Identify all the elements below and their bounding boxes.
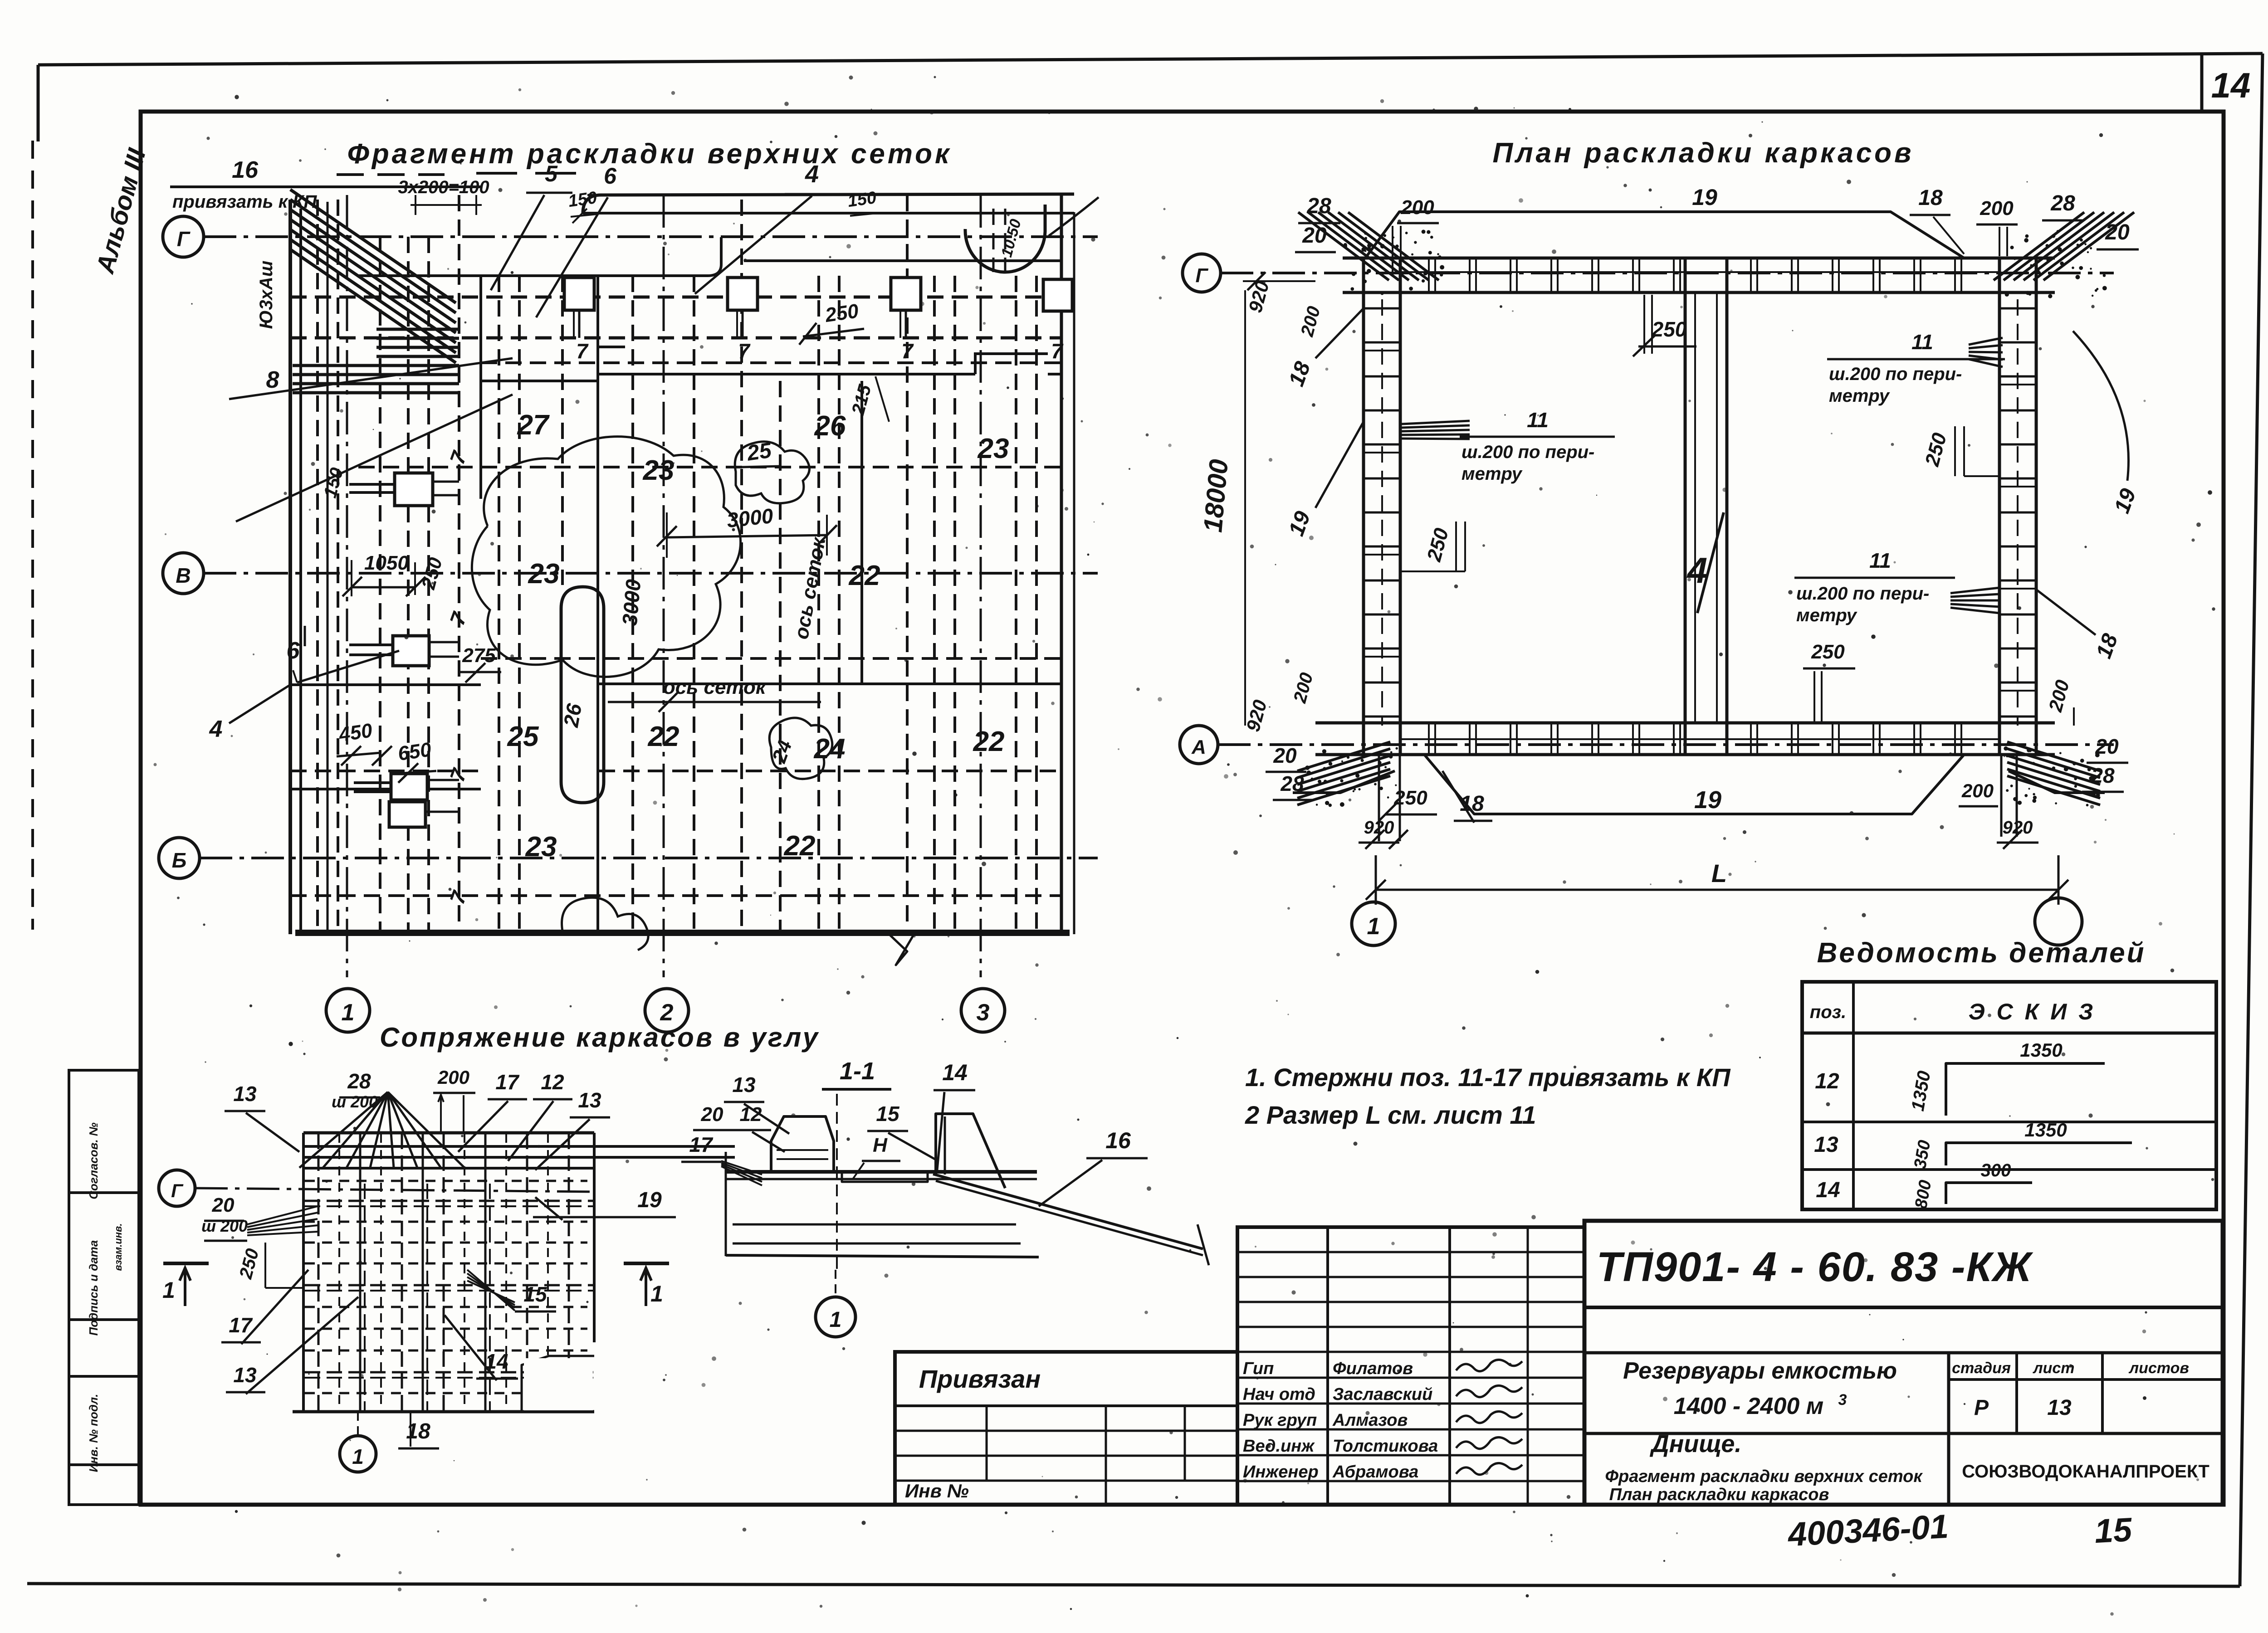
axis line Г plan: [1221, 272, 2114, 274]
svg-text:15: 15: [876, 1102, 900, 1126]
parts table header: [1810, 999, 2096, 1024]
plan bottom dims 920 pair: [1359, 818, 2038, 849]
rotated note Ю3хАш: [256, 261, 276, 329]
svg-text:650: 650: [396, 738, 433, 765]
designation ТП901-4-60.83-КЖ: [1597, 1244, 2034, 1290]
collar pair A on axis B: [349, 473, 459, 506]
svg-text:Подпись и дата: Подпись и дата: [87, 1240, 100, 1336]
plan corner hatch bottom-left: [1293, 742, 1398, 807]
corner detail label 19 right: [533, 1188, 676, 1220]
corner detail mesh grid: [293, 1133, 735, 1412]
svg-text:16: 16: [1105, 1128, 1131, 1153]
parts table row 14: [1816, 1160, 2032, 1210]
svg-text:Днище.: Днище.: [1650, 1430, 1742, 1458]
svg-text:ш.200 по пери-: ш.200 по пери-: [1796, 584, 1929, 604]
svg-text:26: 26: [559, 702, 586, 729]
svg-text:метру: метру: [1829, 386, 1890, 406]
svg-text:13: 13: [578, 1088, 601, 1112]
svg-text:ш 200: ш 200: [201, 1217, 248, 1235]
svg-text:Привязан: Привязан: [919, 1365, 1041, 1393]
svg-text:22: 22: [648, 721, 679, 752]
privyazan header text: [919, 1365, 1041, 1393]
svg-text:Вед.инж: Вед.инж: [1243, 1437, 1315, 1456]
svg-text:Н: Н: [873, 1134, 888, 1156]
corner detail dim 250 rotated: [235, 1243, 303, 1288]
revision cloud big: [472, 437, 740, 677]
corner detail label 13 lower: [226, 1297, 358, 1394]
svg-text:ТП901- 4 - 60. 83 -КЖ: ТП901- 4 - 60. 83 -КЖ: [1597, 1244, 2034, 1290]
fragment solid horizontals: [290, 374, 1070, 931]
svg-text:17: 17: [229, 1313, 253, 1337]
corner detail hatch fan: [299, 1092, 464, 1168]
svg-text:23: 23: [528, 558, 560, 590]
handwritten sheet 15: [2093, 1511, 2133, 1550]
svg-text:20: 20: [1302, 224, 1327, 248]
svg-text:листов: листов: [2128, 1360, 2189, 1377]
axis circle Г corner detail: [159, 1170, 195, 1206]
plan dim 250 top middle: [1633, 295, 1696, 356]
plan dim 18000 rotated: [1198, 290, 1245, 726]
svg-text:14: 14: [1816, 1178, 1840, 1202]
dimension 3000 horizontal: [657, 504, 837, 558]
svg-text:План раскладки каркасов: План раскладки каркасов: [1492, 137, 1914, 169]
svg-text:28: 28: [1280, 772, 1304, 795]
curved cutout bulb with hatch: [965, 197, 1099, 272]
svg-text:16: 16: [232, 157, 259, 183]
plan left ladder frame: [1364, 258, 1400, 755]
axis circle Б fragment: [159, 838, 200, 878]
svg-text:17: 17: [495, 1070, 520, 1094]
svg-text:L: L: [1711, 859, 1727, 887]
svg-text:300: 300: [1981, 1160, 2011, 1180]
plan bottom-right corner labels 20 28 200: [1959, 678, 2128, 837]
plan bottom label 18: [1442, 771, 1492, 823]
svg-text:Г: Г: [171, 1180, 184, 1201]
svg-text:25: 25: [745, 439, 774, 466]
svg-text:План раскладки каркасов: План раскладки каркасов: [1609, 1485, 1829, 1504]
dimension 215 rotated: [848, 376, 889, 422]
plan band tick marks: [1429, 258, 1961, 755]
svg-text:Г: Г: [177, 227, 191, 251]
svg-text:24: 24: [814, 733, 846, 765]
privyazan table: [895, 1352, 1237, 1505]
svg-text:20: 20: [2095, 735, 2119, 758]
svg-text:Абрамова: Абрамова: [1332, 1462, 1418, 1482]
svg-text:Р: Р: [1974, 1396, 1989, 1420]
svg-text:2 Размер L см. лист 11: 2 Размер L см. лист 11: [1245, 1101, 1536, 1129]
cell label 25 row: [507, 721, 539, 752]
cell label 23 a: [643, 455, 675, 486]
svg-text:200: 200: [1980, 197, 2014, 219]
svg-text:8: 8: [266, 367, 279, 393]
title: Фрагмент раскладки верхних сеток: [337, 138, 952, 175]
plan corner hatch top-right: [1994, 212, 2134, 298]
svg-text:5: 5: [545, 161, 558, 186]
dimension 250 fragment: [799, 300, 864, 345]
svg-text:1: 1: [342, 999, 355, 1026]
fragment dashed horizontals: [290, 297, 1061, 896]
svg-text:13: 13: [1814, 1133, 1838, 1157]
svg-text:20: 20: [2105, 220, 2130, 244]
note ось сеток rotated: [790, 535, 830, 641]
svg-text:1: 1: [162, 1277, 175, 1303]
svg-text:ось сеток: ось сеток: [663, 676, 767, 698]
capsule 26: [559, 587, 604, 803]
dimension 150 rotated left: [320, 466, 347, 500]
svg-text:Инв №: Инв №: [905, 1480, 969, 1501]
project name Резервуары емкостью: [1623, 1358, 1897, 1419]
svg-text:метру: метру: [1461, 464, 1523, 484]
svg-text:7: 7: [901, 339, 914, 363]
corner detail label 14: [445, 1315, 518, 1380]
corner detail label 17 lower: [221, 1270, 308, 1344]
svg-text:17: 17: [689, 1133, 714, 1156]
cell label 27: [517, 409, 550, 441]
axis line Г fragment: [204, 235, 1098, 238]
svg-text:200: 200: [437, 1067, 469, 1088]
svg-text:Инв. № подл.: Инв. № подл.: [87, 1394, 100, 1472]
dimension 150 top: [567, 188, 878, 223]
fragment band line 2: [358, 237, 1061, 276]
collar pair B lower: [349, 636, 459, 666]
svg-text:6: 6: [287, 638, 300, 664]
dimension 650: [396, 738, 436, 783]
labels 7 under collar row: [576, 339, 1064, 363]
svg-text:2: 2: [660, 999, 674, 1026]
svg-text:Гип: Гип: [1243, 1359, 1274, 1378]
mesh splice collar 1: [564, 278, 594, 338]
plan bottom-left corner labels 20 28: [1266, 744, 1313, 800]
svg-text:20: 20: [701, 1103, 723, 1126]
svg-text:28: 28: [1306, 194, 1331, 218]
section label 14: [934, 1060, 975, 1170]
leader 5: [491, 161, 572, 290]
svg-text:В: В: [176, 564, 191, 587]
callout 16 привязать к КП: [170, 157, 481, 212]
svg-text:Ведомость деталей: Ведомость деталей: [1817, 937, 2146, 969]
svg-text:1-1: 1-1: [840, 1058, 875, 1085]
svg-text:Сопряжение каркасов в углу: Сопряжение каркасов в углу: [380, 1022, 820, 1053]
svg-text:1400 - 2400 м: 1400 - 2400 м: [1674, 1393, 1823, 1419]
inventory number cell: [905, 1480, 969, 1501]
svg-text:18: 18: [1918, 186, 1943, 210]
label 8 with leader: [229, 358, 513, 522]
svg-text:Ю3хАш: Ю3хАш: [256, 261, 276, 329]
svg-text:250: 250: [1652, 317, 1687, 341]
axis line В fragment: [204, 572, 1098, 575]
cell label 26: [814, 410, 846, 442]
plan top chord 19: [1365, 185, 1964, 258]
plan center mark 4: [1686, 512, 1724, 613]
title: Сопряжение каркасов в углу: [380, 1022, 820, 1053]
cell label 24: [814, 733, 846, 765]
handwritten doc number 400346-01: [1786, 1507, 1950, 1554]
plan left dims 920 200: [1243, 272, 1324, 339]
section axis dashed: [836, 1094, 838, 1270]
section title 1-1: [822, 1058, 891, 1089]
svg-text:20: 20: [1273, 744, 1297, 767]
svg-text:Резервуары емкостью: Резервуары емкостью: [1623, 1358, 1897, 1384]
plan middle split verticals: [1685, 258, 1727, 755]
cell label 23 b: [978, 433, 1009, 464]
fragment dashed verticals: [318, 195, 1036, 931]
svg-text:12: 12: [541, 1070, 564, 1094]
svg-text:13: 13: [233, 1363, 257, 1387]
title: Ведомость деталей: [1817, 937, 2146, 969]
svg-text:Заславский: Заславский: [1333, 1385, 1432, 1404]
svg-text:13: 13: [2047, 1396, 2072, 1420]
section grid bubble 1: [816, 1270, 855, 1337]
svg-text:3: 3: [1838, 1391, 1847, 1409]
svg-text:23: 23: [525, 831, 557, 863]
corner detail grid bubble 1: [340, 1412, 376, 1472]
label 6 with leader: [287, 626, 399, 682]
axis circle В fragment: [163, 553, 204, 594]
svg-text:лист: лист: [2032, 1360, 2074, 1377]
svg-text:1: 1: [830, 1308, 842, 1332]
cell label 22 c: [784, 830, 816, 862]
svg-text:ш.200 по пери-: ш.200 по пери-: [1829, 364, 1962, 384]
column axis 1 of fragment: [326, 195, 370, 1032]
dimension 3000 rotated: [618, 578, 645, 627]
section label 15: [867, 1102, 938, 1161]
svg-text:150: 150: [567, 188, 598, 211]
svg-text:взам.инв.: взам.инв.: [112, 1224, 124, 1271]
svg-text:1. Стержни поз. 11-17 привязат: 1. Стержни поз. 11-17 привязать к КП: [1245, 1063, 1731, 1092]
plan corner hatch bottom-right: [2004, 742, 2105, 806]
plan grid bubble right: [2035, 898, 2082, 945]
svg-text:3х200=100: 3х200=100: [398, 177, 489, 197]
section channel recess: [842, 1134, 928, 1182]
mesh splice collar 2: [728, 278, 758, 338]
plan bottom dim 250 left: [1379, 787, 1437, 821]
svg-text:Г: Г: [1195, 264, 1208, 287]
svg-text:25: 25: [507, 721, 539, 752]
svg-text:19: 19: [1694, 786, 1721, 814]
svg-text:Фрагмент раскладки верхних сет: Фрагмент раскладки верхних сеток: [1605, 1467, 1923, 1486]
svg-text:11: 11: [1869, 549, 1891, 572]
svg-text:Э С К И З: Э С К И З: [1969, 999, 2096, 1024]
svg-text:19: 19: [637, 1188, 662, 1212]
plan top band: [1343, 258, 2055, 292]
dimension 450: [337, 719, 392, 765]
svg-text:20: 20: [212, 1194, 235, 1216]
svg-text:стадия: стадия: [1952, 1360, 2011, 1377]
revision cloud bottom: [562, 897, 649, 950]
svg-text:7: 7: [576, 339, 589, 363]
svg-text:12: 12: [740, 1103, 762, 1126]
svg-text:4: 4: [209, 716, 223, 742]
svg-text:ш.200 по пери-: ш.200 по пери-: [1461, 442, 1594, 462]
title: План раскладки каркасов: [1492, 137, 1914, 169]
plan dim 250 mid bottom: [1803, 641, 1855, 723]
collar pair C stacked: [354, 774, 459, 827]
svg-text:19: 19: [1692, 185, 1717, 210]
plan right labels 19 18: [2036, 331, 2141, 662]
cell label 23 c: [528, 558, 560, 590]
plan labels top-right 18 200 28 20: [1910, 186, 2139, 256]
svg-text:1350: 1350: [2024, 1119, 2067, 1141]
label 4 left with leader: [209, 524, 290, 742]
axis circle Г plan: [1183, 254, 1221, 292]
note line 2: [1245, 1101, 1536, 1129]
axis circle А plan: [1180, 726, 1218, 764]
svg-text:15: 15: [2093, 1511, 2133, 1550]
svg-text:200: 200: [1400, 196, 1434, 219]
svg-text:7: 7: [738, 339, 751, 363]
svg-text:поз.: поз.: [1810, 1002, 1846, 1022]
svg-text:Согласов. №: Согласов. №: [87, 1122, 100, 1199]
svg-text:Б: Б: [172, 848, 187, 872]
parts table row 13: [1814, 1119, 2132, 1170]
corner detail section mark 1 left: [162, 1263, 209, 1306]
svg-text:11: 11: [1527, 408, 1549, 432]
svg-text:Рук груп: Рук груп: [1243, 1411, 1317, 1430]
section slope line 16: [933, 1128, 1209, 1265]
svg-text:11: 11: [1911, 330, 1933, 354]
horizontal rebar bundle upper: [376, 329, 459, 356]
svg-text:3000: 3000: [618, 578, 645, 627]
vertical label Альбом III: [90, 145, 151, 277]
stage list cells: [1952, 1360, 2189, 1420]
svg-text:14: 14: [942, 1060, 968, 1085]
corner detail labels top: [225, 1067, 610, 1170]
plan left labels 18 19: [1284, 308, 1364, 539]
plan right ladder frame: [1999, 258, 2036, 755]
organization СОЮЗВОДОКАНАЛПРОЕКТ: [1962, 1462, 2209, 1482]
plan labels top-left 28 20 200: [1295, 194, 1439, 272]
svg-text:1050: 1050: [364, 552, 409, 574]
svg-text:Филатов: Филатов: [1333, 1359, 1413, 1378]
svg-text:250: 250: [1811, 641, 1845, 663]
svg-text:275: 275: [462, 644, 496, 667]
plan grid bubble 1: [1352, 902, 1395, 946]
svg-text:150: 150: [846, 188, 878, 211]
corner detail section mark 1 right: [624, 1263, 669, 1306]
plan overall dimension L: [1366, 855, 2068, 905]
svg-text:метру: метру: [1796, 605, 1857, 625]
cell label 23 d: [525, 831, 557, 863]
corner detail labels 20 ш200 left: [201, 1194, 318, 1241]
signature table names: [1243, 1359, 1522, 1482]
axis line А plan: [1218, 743, 2114, 746]
axis line Г corner detail: [195, 1188, 596, 1192]
sheet content Днище: [1605, 1430, 1923, 1504]
svg-text:22: 22: [849, 560, 880, 591]
cell label 22 d mid: [849, 560, 880, 591]
column axis 2 of fragment: [645, 195, 689, 1032]
svg-text:250: 250: [823, 300, 860, 327]
svg-text:27: 27: [517, 409, 550, 441]
mesh splice collar 3: [891, 278, 921, 338]
svg-text:22: 22: [973, 726, 1005, 757]
plan bottom-left dims 920 200: [1242, 671, 1317, 734]
dimension 1050: [342, 552, 425, 596]
dimension 3x200=100 top: [398, 177, 489, 215]
svg-text:1350: 1350: [2020, 1039, 2062, 1061]
corner detail label 15: [467, 1270, 556, 1311]
left margin stamp boxes: [69, 1070, 139, 1505]
cell label 22 b: [973, 726, 1005, 757]
svg-text:13: 13: [233, 1082, 257, 1106]
title block main box: [1584, 1221, 2223, 1505]
plan dim 250 left rotated: [1400, 522, 1465, 571]
note ось сеток horizontal: [608, 676, 821, 712]
revision cloud 24 rotated: [768, 718, 832, 779]
corner detail label 18: [398, 1412, 439, 1448]
svg-text:14: 14: [2211, 65, 2251, 105]
inner frame border: [141, 112, 2224, 1505]
svg-text:23: 23: [643, 455, 675, 486]
svg-text:28: 28: [347, 1069, 371, 1093]
svg-text:Инженер: Инженер: [1243, 1462, 1319, 1482]
svg-text:4: 4: [805, 161, 819, 188]
signature table: [1237, 1227, 1584, 1505]
fragment top edge line: [583, 194, 1074, 213]
labels 7 rotated on left column: [445, 447, 471, 907]
diagonal rebar bundle top-left: [290, 190, 456, 363]
section label 13: [724, 1073, 789, 1134]
svg-text:450: 450: [337, 719, 374, 746]
svg-text:13: 13: [732, 1073, 756, 1097]
dimension 275: [458, 644, 501, 682]
section left mesh block: [771, 1116, 834, 1172]
svg-text:22: 22: [784, 830, 816, 862]
axis line Б fragment: [200, 857, 1098, 859]
step lines upper right of fragment: [598, 347, 1048, 374]
svg-text:1: 1: [1367, 913, 1380, 940]
svg-text:Фрагмент раскладки верхних: Фрагмент раскладки верхних сеток: [347, 138, 952, 170]
svg-text:А: А: [1191, 736, 1206, 758]
plan rebar callout 11 lower-right: [1794, 549, 1999, 625]
svg-text:28: 28: [2050, 191, 2075, 215]
cell label 22 a: [648, 721, 679, 752]
svg-text:6: 6: [604, 163, 617, 189]
fragment bottom edge: [295, 934, 1070, 965]
svg-text:3: 3: [977, 999, 990, 1026]
svg-text:1: 1: [650, 1281, 663, 1306]
fragment cell partition verticals: [481, 276, 862, 931]
horizontal rebar bundle lower: [293, 366, 459, 393]
section labels 20 12 17: [681, 1103, 785, 1185]
section tall trapezoid 14: [936, 1114, 1005, 1188]
section beam lines: [726, 1152, 1039, 1257]
svg-text:12: 12: [1815, 1069, 1839, 1093]
plan rebar callout 11 upper-right: [1827, 330, 2005, 406]
plan dim 250 right rotated: [1921, 426, 1999, 476]
parts table row 12: [1815, 1039, 2105, 1116]
svg-text:Алмазов: Алмазов: [1332, 1411, 1408, 1430]
fragment outer edge verticals right: [1061, 194, 1074, 934]
svg-text:Нач отд: Нач отд: [1243, 1385, 1315, 1404]
svg-text:ш 200: ш 200: [332, 1092, 378, 1111]
plan ladder stubs below band: [1379, 755, 1400, 841]
mesh splice collar 4 at right edge: [1043, 279, 1072, 311]
revision cloud small 25: [735, 439, 809, 503]
svg-text:250: 250: [1393, 787, 1427, 809]
plan rebar callout 11 left: [1402, 408, 1615, 484]
svg-text:СОЮЗВОДОКАНАЛПРОЕКТ: СОЮЗВОДОКАНАЛПРОЕКТ: [1962, 1462, 2209, 1482]
svg-text:23: 23: [978, 433, 1009, 464]
parts table frame: [1802, 982, 2216, 1209]
svg-text:15: 15: [523, 1282, 547, 1306]
svg-text:26: 26: [814, 410, 846, 442]
plan corner hatch top-left: [1298, 212, 1444, 295]
leader 4 top: [695, 161, 839, 294]
svg-text:7: 7: [1051, 339, 1064, 363]
svg-text:28: 28: [2091, 764, 2115, 787]
sheet number box 14: [2202, 54, 2250, 112]
